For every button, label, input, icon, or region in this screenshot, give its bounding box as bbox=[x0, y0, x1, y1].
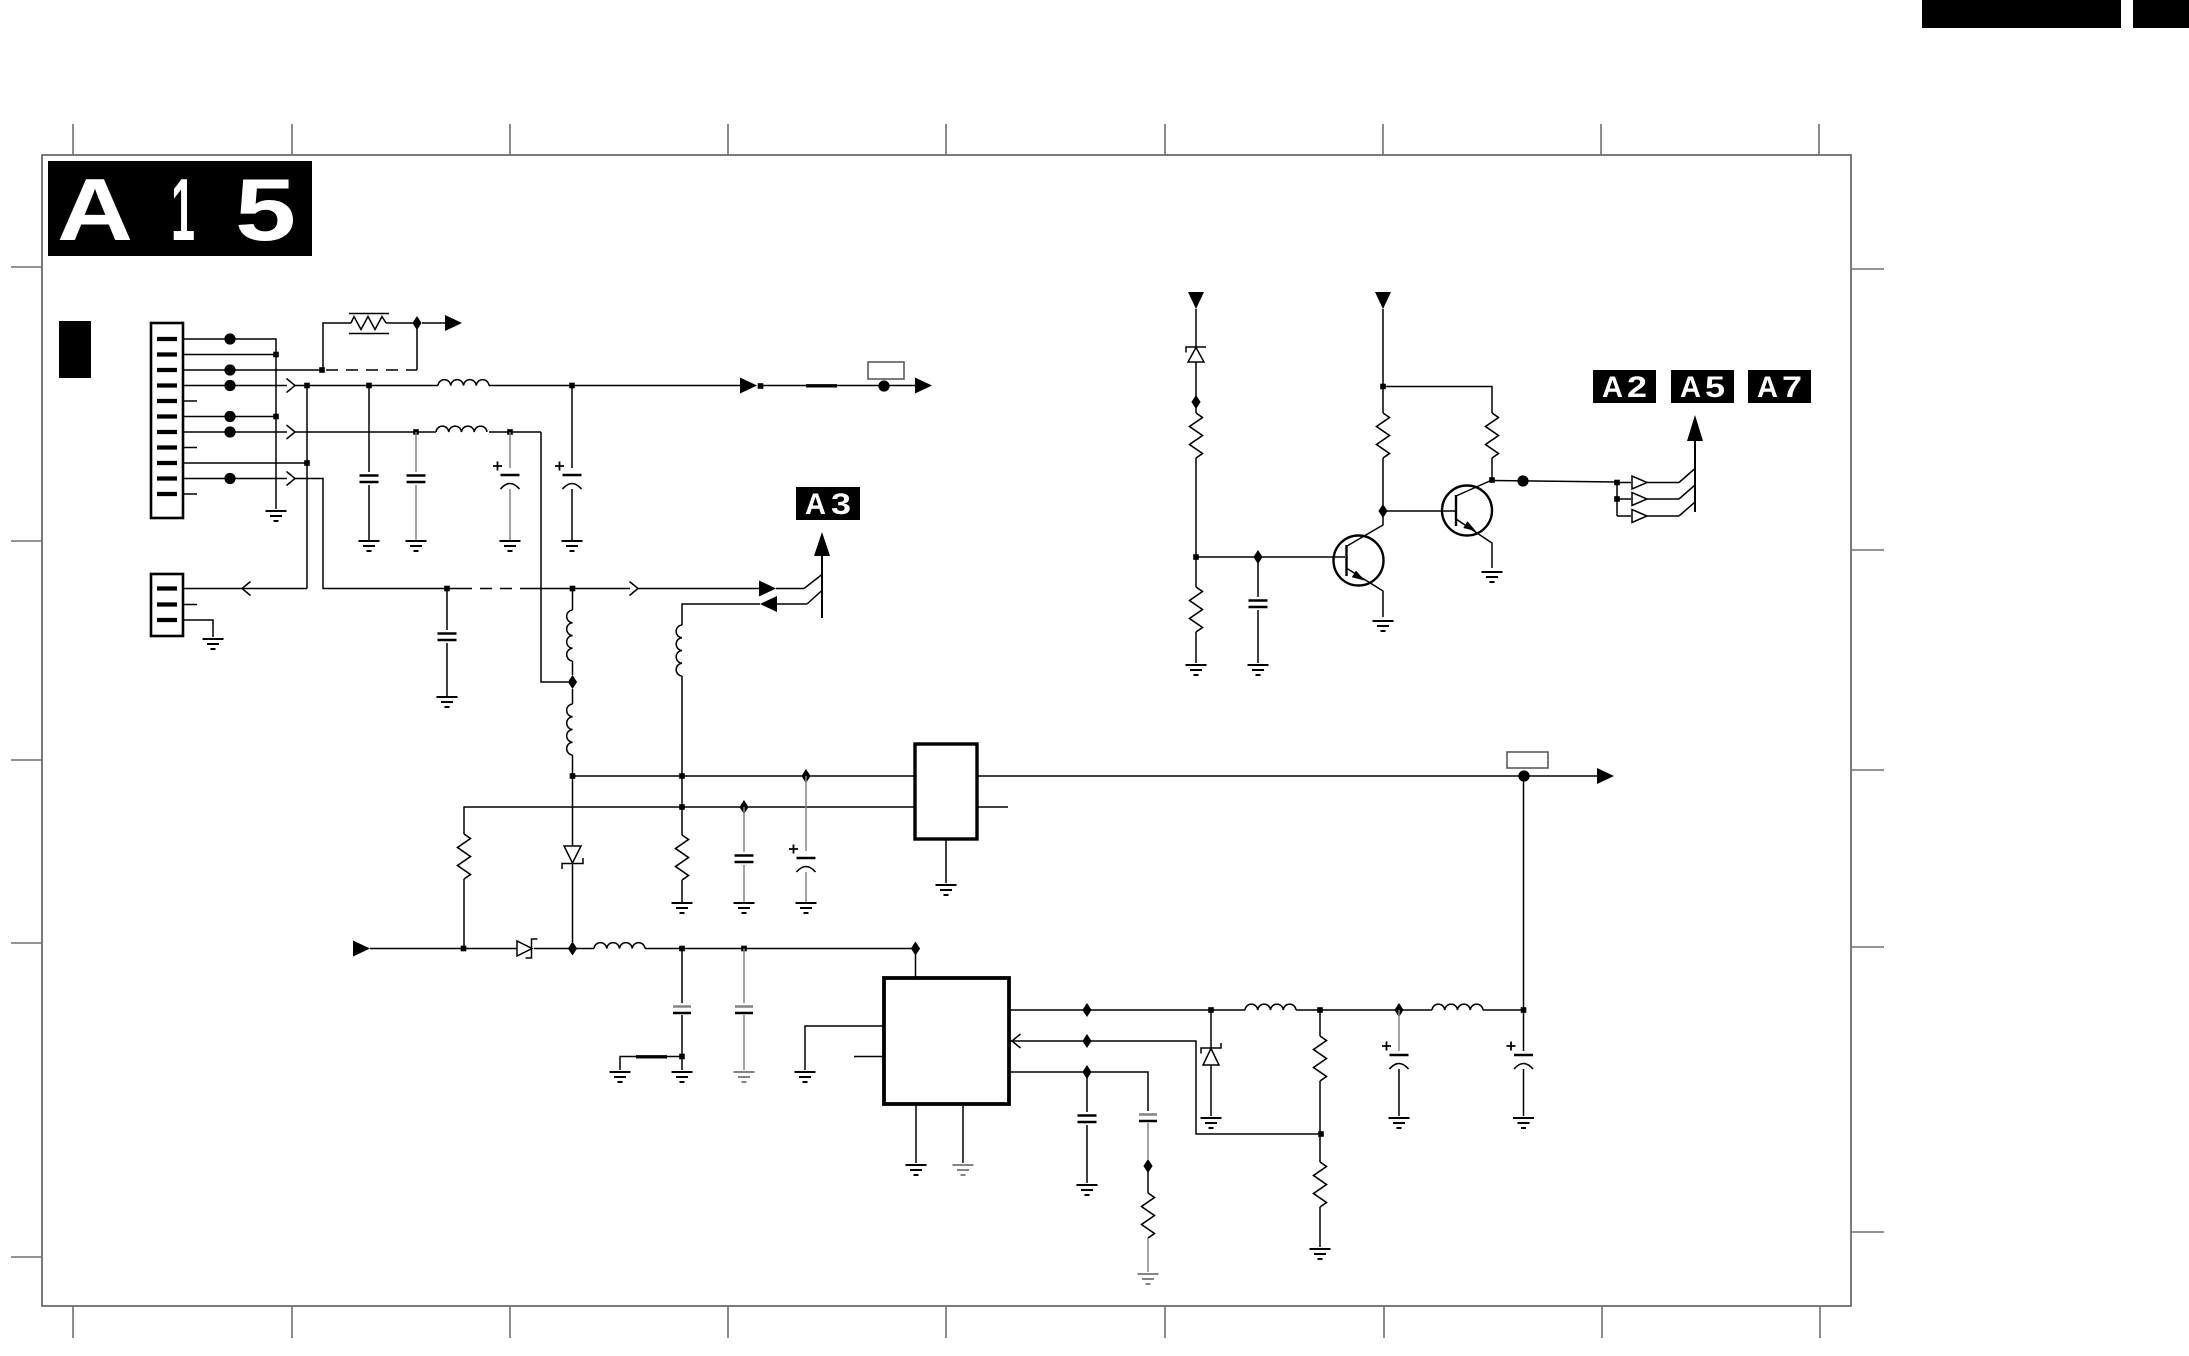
diamond node L3/L4 bbox=[568, 675, 577, 689]
regulator ground pin bbox=[945, 839, 947, 883]
electrolytic capacitor C7 bbox=[789, 776, 816, 902]
ground R7 bbox=[1138, 1274, 1159, 1284]
A2A5A7 bus arrow bbox=[1687, 415, 1703, 441]
wire top link y386 bbox=[1383, 387, 1492, 414]
wire supply column x1196 bbox=[1195, 309, 1197, 663]
frame tick marks right edge bbox=[1851, 269, 1884, 1232]
ground pair right bbox=[672, 1072, 693, 1082]
junction pin9/x307 bbox=[304, 460, 310, 466]
regulator output stub y807 bbox=[977, 806, 1008, 808]
ground U2 pin1 bbox=[795, 1072, 816, 1082]
inductor L5 bbox=[676, 625, 682, 676]
junction pin7/C3 bbox=[507, 429, 513, 435]
node dot pin6 bbox=[224, 411, 235, 422]
ground R6 bbox=[1310, 1249, 1331, 1259]
top-right black header box 1 bbox=[1922, 0, 2121, 28]
frame tick marks top edge bbox=[73, 124, 1819, 155]
wire R11 down bbox=[1491, 458, 1493, 480]
chevron pin7 bbox=[287, 425, 296, 439]
ground C13 bbox=[1513, 1118, 1534, 1128]
inductor L7 bbox=[1245, 1004, 1296, 1010]
transistor Q1 bbox=[1334, 511, 1384, 617]
open arrow 1 bbox=[1632, 476, 1647, 489]
junction pin3 bbox=[319, 367, 325, 373]
junction harness a bbox=[1614, 480, 1620, 486]
ground C3 bbox=[500, 541, 521, 551]
electrolytic capacitor C12 bbox=[1382, 1010, 1409, 1116]
connector J1 bbox=[151, 323, 183, 518]
node dot pin10 bbox=[224, 473, 235, 484]
inductor L3 bbox=[567, 610, 573, 661]
stub U2 left pin2 bbox=[854, 1056, 884, 1058]
fusible resistor R1 bbox=[323, 314, 447, 371]
ground C12 bbox=[1389, 1118, 1410, 1128]
sheet label A15 bbox=[48, 160, 312, 259]
capacitor C10 (x1087) bbox=[1078, 1072, 1097, 1183]
zener diode D3 bbox=[1201, 1010, 1221, 1116]
ground D3 bbox=[1201, 1118, 1222, 1128]
ground C6 bbox=[734, 903, 755, 913]
harness split column bbox=[1616, 482, 1618, 516]
zener diode D4 bbox=[1186, 347, 1206, 362]
resistor R3 bbox=[458, 834, 471, 879]
chevron y588 bbox=[630, 582, 639, 596]
junction pin6/bus bbox=[273, 414, 279, 420]
junction pin2/bus bbox=[273, 352, 279, 358]
ground C10 bbox=[1077, 1185, 1098, 1195]
diamond y1072 bbox=[1082, 1065, 1091, 1079]
wire input line y948 bbox=[370, 949, 916, 979]
resistor R5 bbox=[1314, 1010, 1327, 1134]
value label box on line4 bbox=[868, 362, 904, 379]
capacitor C11 (x1148) bbox=[1139, 1115, 1157, 1160]
label A3 bbox=[796, 487, 860, 521]
A3 bus line bbox=[821, 550, 823, 618]
wire x307 riser bbox=[306, 386, 308, 589]
open arrow 3 bbox=[1632, 510, 1647, 523]
diamond y776/C7 bbox=[801, 769, 810, 783]
ground R2 bbox=[672, 903, 693, 913]
junction x682/y807 bbox=[679, 804, 685, 810]
ground pair left bbox=[610, 1072, 631, 1082]
wire lower bus line y588 bbox=[447, 575, 822, 589]
IC U2 bbox=[884, 978, 1009, 1104]
wire J1 pin4 bbox=[183, 385, 744, 387]
wire Q2 base y511 bbox=[1383, 510, 1455, 512]
stub J1 pin5 bbox=[183, 400, 197, 402]
capacitor C5 bbox=[438, 589, 457, 697]
junction y948/C9 bbox=[741, 946, 747, 952]
node dot pin4 bbox=[224, 380, 235, 391]
left black marker rectangle bbox=[59, 321, 91, 378]
chevron left into U2 bbox=[1012, 1034, 1021, 1048]
diamond y1010/C12 bbox=[1394, 1003, 1403, 1017]
wire U2 bottom pin1 bbox=[915, 1104, 917, 1163]
wire supply column x1383 bbox=[1382, 309, 1384, 505]
arrow out R1 bbox=[445, 315, 462, 331]
wire line y807 bbox=[464, 807, 915, 834]
node dot collector bbox=[1517, 475, 1528, 486]
wire return line y604 bbox=[682, 590, 823, 625]
harness line 3 bbox=[1617, 502, 1695, 516]
wire U2 sense line y1072 bbox=[1009, 1072, 1148, 1111]
diamond node R1 out bbox=[412, 316, 421, 330]
wire R3 down bbox=[463, 879, 465, 949]
inductor L3 chain x573 bbox=[572, 589, 574, 777]
junction x682/y776 bbox=[679, 773, 685, 779]
wire J2 pin3 bbox=[183, 620, 213, 637]
label A5 bbox=[1671, 370, 1734, 404]
capacitor C2 bbox=[407, 432, 426, 540]
svg-text:1: 1 bbox=[171, 160, 195, 259]
inductor L6 bbox=[594, 943, 645, 949]
wire J1 pin1 bbox=[183, 339, 276, 509]
diamond x1196 bbox=[1191, 395, 1200, 409]
junction y1134/R6 bbox=[1318, 1131, 1324, 1137]
ground U2 bottom2 bbox=[953, 1165, 974, 1175]
inductor L8 bbox=[1432, 1004, 1483, 1010]
junction y588/L3 bbox=[570, 586, 576, 592]
stub J1 pin8 bbox=[183, 447, 197, 449]
connector J2 bbox=[151, 574, 183, 636]
inductor L1 bbox=[438, 380, 489, 386]
chevron pin10 bbox=[287, 472, 296, 486]
capacitor C1 bbox=[360, 386, 379, 541]
junction x1383 top bbox=[1380, 384, 1386, 390]
svg-text:3: 3 bbox=[831, 488, 851, 521]
ground U2 bottom1 bbox=[906, 1165, 927, 1175]
diamond C11/R7 bbox=[1143, 1159, 1152, 1173]
wire U2 out line y1010 bbox=[1009, 1009, 1524, 1011]
arrow into A3 bus bbox=[759, 581, 776, 597]
resistor R8 bbox=[1190, 413, 1203, 458]
junction y1010/D3 bbox=[1208, 1007, 1214, 1013]
page frame border bbox=[42, 155, 1851, 1306]
junction pin7/C2 bbox=[413, 429, 419, 435]
ground Q2 emitter bbox=[1482, 572, 1503, 582]
harness line 2 bbox=[1617, 485, 1695, 499]
node dot y776 bbox=[1518, 770, 1529, 781]
diamond into IC bbox=[911, 942, 920, 956]
capacitor C6 bbox=[735, 807, 754, 902]
supply arrow V2 (down) bbox=[1375, 292, 1391, 309]
wire base line y557 bbox=[1196, 556, 1345, 558]
wire supply line y776 bbox=[573, 775, 916, 777]
resistor R10 bbox=[1377, 413, 1390, 458]
frame tick marks bottom edge bbox=[73, 1306, 1820, 1338]
node dot pin1 bbox=[224, 333, 235, 344]
capacitor C9 bbox=[735, 949, 753, 1071]
arrow input y948 bbox=[353, 941, 370, 957]
junction y948/R3 bbox=[461, 946, 467, 952]
svg-text:A: A bbox=[1680, 371, 1701, 404]
inductor L2 bbox=[436, 426, 487, 432]
A2A5A7 bus line bbox=[1694, 438, 1696, 512]
electrolytic capacitor C3 bbox=[493, 432, 520, 540]
svg-text:A: A bbox=[1757, 371, 1778, 404]
zener diode D1 (x573) bbox=[562, 776, 583, 942]
junction pin4/C4 bbox=[569, 383, 575, 389]
ground U1 bbox=[936, 885, 957, 895]
ground below J1 bus bbox=[266, 511, 287, 521]
svg-text:A: A bbox=[805, 488, 826, 521]
wire x1524 drop bbox=[1523, 776, 1525, 1010]
ground C2 bbox=[406, 541, 427, 551]
junction y1010/R5 bbox=[1317, 1007, 1323, 1013]
ground J2 bbox=[203, 639, 224, 649]
label A2 bbox=[1593, 370, 1656, 404]
resistor R9 bbox=[1190, 587, 1203, 632]
svg-text:2: 2 bbox=[1627, 371, 1647, 404]
ground R9 bbox=[1186, 665, 1207, 675]
A3 bus up arrow bbox=[814, 532, 830, 556]
resistor R7 bbox=[1142, 1172, 1155, 1272]
node dot pin7 bbox=[224, 426, 235, 437]
open arrow 2 bbox=[1632, 493, 1647, 506]
wire J1 pin3 bbox=[183, 369, 322, 371]
diamond y1010 a bbox=[1082, 1003, 1091, 1017]
supply arrow V1 (down) bbox=[1188, 292, 1204, 309]
stub J2 pin2 bbox=[183, 604, 197, 606]
junction y776/x573 bbox=[570, 773, 576, 779]
wire J1 pin10 bbox=[183, 479, 447, 589]
ground C1 bbox=[359, 541, 380, 551]
wire output line y776 bbox=[977, 775, 1597, 777]
diamond y1041 bbox=[1082, 1034, 1091, 1048]
node dot line4 bbox=[878, 380, 889, 391]
inductor L4 bbox=[567, 704, 573, 755]
diamond Q1 collector node bbox=[1378, 504, 1387, 518]
junction harness b bbox=[1614, 496, 1620, 502]
arrow end y776 bbox=[1597, 768, 1614, 784]
electrolytic capacitor C13 bbox=[1507, 1010, 1534, 1116]
wire J1 pin6 bbox=[183, 416, 276, 418]
wire R2 to ground bbox=[681, 880, 683, 902]
resistor R11 bbox=[1486, 413, 1499, 458]
electrolytic capacitor C4 bbox=[555, 386, 582, 541]
svg-text:5: 5 bbox=[235, 160, 296, 259]
junction pin4/C1 bbox=[366, 383, 372, 389]
junction C8 low bbox=[679, 1054, 685, 1060]
wire U2 bottom pin2 bbox=[962, 1104, 964, 1163]
arrow out of A3 bus bbox=[760, 596, 777, 612]
svg-text:7: 7 bbox=[1782, 371, 1802, 404]
junction y948/C8 bbox=[679, 946, 685, 952]
ground C7 bbox=[796, 903, 817, 913]
ground C5 bbox=[437, 697, 458, 707]
wire line4 right bbox=[762, 385, 915, 387]
wire J1 pin9 bbox=[183, 462, 307, 464]
capacitor C14 bbox=[1249, 557, 1268, 663]
wire x682 column bbox=[681, 676, 683, 835]
junction y1010/x1524 bbox=[1521, 1007, 1527, 1013]
wire collector out bbox=[1492, 481, 1617, 483]
capacitor C8 bbox=[673, 949, 691, 1057]
zener diode D2 (horizontal) bbox=[517, 939, 538, 958]
harness line 1 bbox=[1617, 469, 1695, 483]
wire J1 pin2 bbox=[183, 354, 276, 356]
arrow mid line4 bbox=[740, 378, 757, 394]
wire J2 pin1 bbox=[183, 588, 307, 590]
wire C8 to grounds bbox=[620, 1057, 682, 1071]
frame tick marks left edge bbox=[11, 267, 42, 1257]
voltage regulator U1 bbox=[915, 744, 977, 839]
junction x1196/base bbox=[1193, 554, 1199, 560]
ground C9 bbox=[734, 1072, 755, 1082]
chevron left J2 pin1 bbox=[242, 582, 251, 596]
top-right black header box 2 bbox=[2133, 0, 2189, 28]
ground Q1 emitter bbox=[1373, 621, 1394, 631]
diamond y807/C6 bbox=[739, 800, 748, 814]
ground C4 bbox=[562, 541, 583, 551]
svg-text:A: A bbox=[1602, 371, 1623, 404]
label A7 bbox=[1748, 370, 1811, 404]
wire U2 feedback line y1041 bbox=[1009, 1041, 1321, 1134]
junction Q2 collector bbox=[1489, 477, 1495, 483]
junction after arrow bbox=[758, 383, 764, 389]
arrow end line4 bbox=[915, 378, 932, 394]
junction pin4/x307 bbox=[304, 383, 310, 389]
resistor R6 bbox=[1314, 1134, 1327, 1247]
diamond y948/D1 bbox=[568, 942, 577, 956]
wire J1 pin7 bbox=[183, 432, 568, 682]
svg-text:5: 5 bbox=[1705, 371, 1725, 404]
value label box y776 bbox=[1507, 752, 1548, 768]
resistor R2 bbox=[676, 835, 689, 880]
stub J1 pin11 bbox=[183, 493, 197, 495]
chevron pin4 bbox=[287, 379, 296, 393]
junction y588/C5 bbox=[444, 586, 450, 592]
diamond base/C14 bbox=[1253, 550, 1262, 564]
transistor Q2 bbox=[1442, 480, 1492, 568]
ground C14 bbox=[1248, 665, 1269, 675]
node dot pin3 bbox=[224, 364, 235, 375]
dashed link pin3 to R1 bbox=[326, 369, 417, 371]
svg-text:A: A bbox=[57, 160, 133, 259]
wire U2 left pin1 bbox=[805, 1026, 884, 1070]
